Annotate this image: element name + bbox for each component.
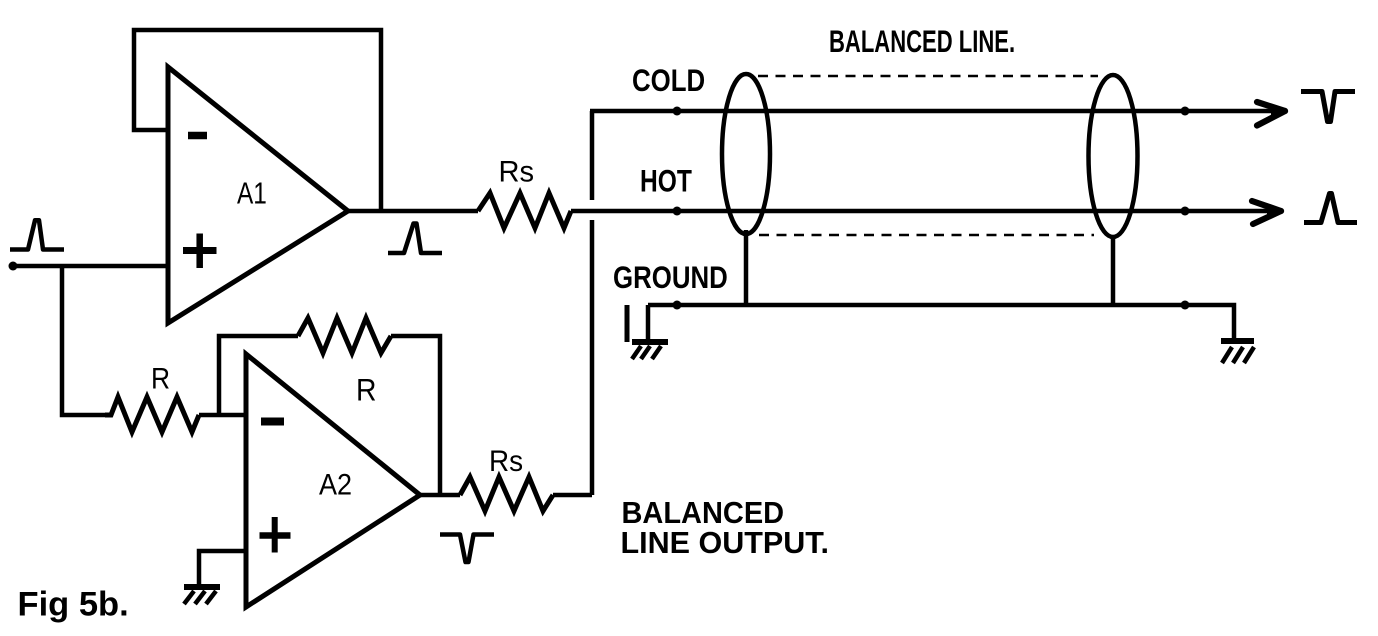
junction dot COLD left [673, 107, 682, 116]
wire A2 non-inverting input to ground [199, 551, 246, 585]
svg-text:A1: A1 [237, 176, 267, 210]
shield dashed bottom [759, 234, 1094, 237]
wire left shield drain to ground bus [744, 230, 749, 305]
junction dot ground left [673, 301, 682, 310]
wire A1 output [349, 209, 478, 214]
input waveform pulse [10, 220, 64, 249]
svg-text:A2: A2 [319, 468, 352, 502]
op-amp A2 [246, 354, 420, 607]
resistor Rs1 [478, 193, 571, 228]
cable shield left ellipse [722, 74, 770, 234]
wire COLD riser (crossover gap at HOT) [590, 111, 595, 495]
wire Rs2 to COLD riser [553, 493, 592, 498]
wire HOT line [571, 209, 1279, 214]
svg-text:LINE OUTPUT.: LINE OUTPUT. [621, 525, 830, 560]
cable shield right ellipse [1089, 75, 1138, 237]
input terminal dot [9, 262, 18, 271]
resistor R2 feedback [298, 318, 391, 353]
svg-text:Fig 5b.: Fig 5b. [18, 586, 129, 624]
wire ground bus [648, 305, 1234, 338]
svg-text:R: R [151, 361, 170, 395]
svg-text:COLD: COLD [632, 64, 705, 99]
stray vertical mark [625, 305, 630, 342]
ground symbol A2 [184, 587, 220, 604]
junction dot COLD right [1181, 107, 1190, 116]
svg-text:Rs: Rs [499, 155, 535, 188]
svg-text:HOT: HOT [640, 163, 692, 199]
svg-text:BALANCED LINE.: BALANCED LINE. [829, 23, 1015, 59]
resistor R1 [105, 397, 199, 432]
shield dashed top [758, 75, 1098, 78]
COLD output waveform (inverted pulse) [1301, 92, 1355, 122]
wire COLD line [590, 109, 1283, 114]
wire ground stub left [646, 305, 651, 342]
ground symbol left [632, 342, 668, 359]
junction dot HOT right [1181, 207, 1190, 216]
A1 output waveform pulse [388, 224, 442, 254]
wire A2 output [420, 493, 460, 498]
wire R1 to A2 inverting input [199, 413, 246, 418]
wire A1 feedback loop [134, 30, 381, 211]
arrow HOT output [1252, 201, 1284, 224]
wire right shield drain to ground bus [1111, 236, 1116, 305]
op-amp A1 [168, 67, 348, 323]
svg-text:GROUND: GROUND [613, 261, 728, 296]
HOT output waveform pulse [1304, 194, 1357, 223]
svg-text:Rs: Rs [489, 445, 523, 478]
resistor Rs2 [460, 477, 553, 511]
ground symbol right [1221, 341, 1254, 363]
wire A2 feedback right [391, 336, 440, 495]
wire input branch down to R [62, 266, 105, 415]
svg-text:R: R [356, 373, 376, 408]
arrow COLD output [1257, 102, 1288, 126]
wire A1 non-inverting input [13, 264, 169, 269]
junction dot HOT left [673, 207, 682, 216]
junction dot ground right [1181, 301, 1190, 310]
A2 output waveform (inverted pulse) [440, 535, 494, 563]
wire A2 feedback left [219, 336, 298, 415]
